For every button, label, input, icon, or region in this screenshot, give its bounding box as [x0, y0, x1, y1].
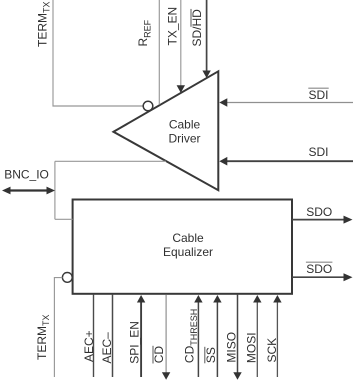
svg-text:AEC+: AEC+ [82, 330, 96, 362]
arrowhead SD/HD [202, 70, 210, 78]
svg-text:Equalizer: Equalizer [163, 245, 213, 259]
wire SDI (input to driver) [226, 160, 353, 162]
wire BNC node vertical [54, 161, 56, 219]
arrowhead SCK into equalizer [273, 295, 281, 303]
arrowhead MISO (down) [233, 372, 241, 380]
pin label TERM_TX bottom [35, 314, 51, 360]
pin label SD/HD (overline on HD) [190, 9, 204, 47]
inversion bubble TERM_TX on equalizer [62, 273, 72, 283]
wire MOSI [256, 302, 258, 378]
svg-text:SPI_EN: SPI_EN [128, 321, 142, 364]
svg-text:SCK: SCK [265, 338, 279, 363]
wire CD-bar [165, 295, 167, 373]
wire SS-bar [216, 302, 218, 378]
wire R_REF [158, 0, 160, 105]
pin label MISO [224, 332, 238, 363]
pin label SCK [265, 338, 279, 363]
arrowhead SDO [344, 216, 353, 224]
wire SDO-bar output [292, 276, 344, 278]
svg-text:SDO: SDO [306, 262, 332, 276]
arrowhead SDO-bar [344, 273, 353, 281]
svg-text:SDO: SDO [306, 205, 332, 219]
wire SCK [276, 302, 278, 378]
arrowhead TX_EN [177, 85, 185, 93]
label Cable Driver [169, 117, 201, 145]
wire driver output to BNC node [55, 160, 166, 162]
wire SDI-bar (input to driver) [226, 102, 353, 104]
arrowhead MOSI into equalizer [253, 295, 261, 303]
arrowhead SS-bar into equalizer [213, 295, 221, 303]
pin label CD-bar [152, 346, 166, 364]
svg-text:TX_EN: TX_EN [165, 7, 179, 46]
arrowhead SDI [219, 157, 227, 166]
arrowhead CD-bar (down) [162, 372, 170, 380]
svg-text:SD/HD: SD/HD [190, 9, 204, 47]
svg-text:BNC_IO: BNC_IO [4, 168, 49, 182]
pin label CD_THRESH [182, 309, 198, 363]
pin label SPI_EN [128, 321, 142, 364]
label Cable Equalizer [163, 231, 213, 259]
pin label TX_EN [165, 7, 179, 46]
pin label R_REF [136, 19, 152, 46]
wire TX_EN [180, 0, 182, 86]
svg-text:MOSI: MOSI [245, 332, 259, 363]
svg-text:SDI: SDI [309, 88, 329, 102]
svg-text:AEC–: AEC– [100, 332, 114, 364]
arrowhead SDI-bar [219, 98, 227, 107]
svg-text:Driver: Driver [169, 132, 201, 146]
wire CD_THRESH [197, 302, 199, 378]
svg-text:MISO: MISO [224, 332, 238, 363]
pin label MOSI [245, 332, 259, 363]
pin label TERM_TX top [35, 1, 51, 47]
pin label SS-bar [204, 347, 218, 364]
op-amp U1 cable driver triangle [114, 71, 219, 190]
wire AEC+ [93, 295, 95, 377]
port BNC_IO bidirectional arrow [2, 187, 55, 195]
svg-text:Cable: Cable [169, 117, 201, 131]
pin label AEC- [100, 332, 114, 364]
arrowhead SPI_EN into equalizer [137, 295, 145, 303]
svg-text:Cable: Cable [172, 231, 204, 245]
svg-text:SDI: SDI [309, 145, 329, 159]
net label SDO-bar [306, 262, 333, 276]
wire AEC- [112, 295, 114, 377]
wire SPI_EN [140, 302, 142, 378]
block U2 cable equalizer [73, 200, 292, 294]
wire TERM_TX top (to driver bubble) [53, 0, 143, 106]
wire MISO [237, 295, 239, 373]
wire TERM_TX bottom [54, 278, 62, 377]
inversion bubble on cable driver [143, 101, 153, 111]
svg-text:SS: SS [204, 347, 218, 363]
arrowhead CD_THRESH into equalizer [194, 295, 202, 303]
pin label AEC+ [82, 330, 96, 362]
wire SD/HD [206, 0, 208, 71]
wire BNC node to equalizer input [55, 218, 73, 220]
svg-text:CD: CD [152, 346, 166, 364]
net label SDI-bar [308, 88, 328, 102]
wire SDO output [292, 219, 344, 221]
